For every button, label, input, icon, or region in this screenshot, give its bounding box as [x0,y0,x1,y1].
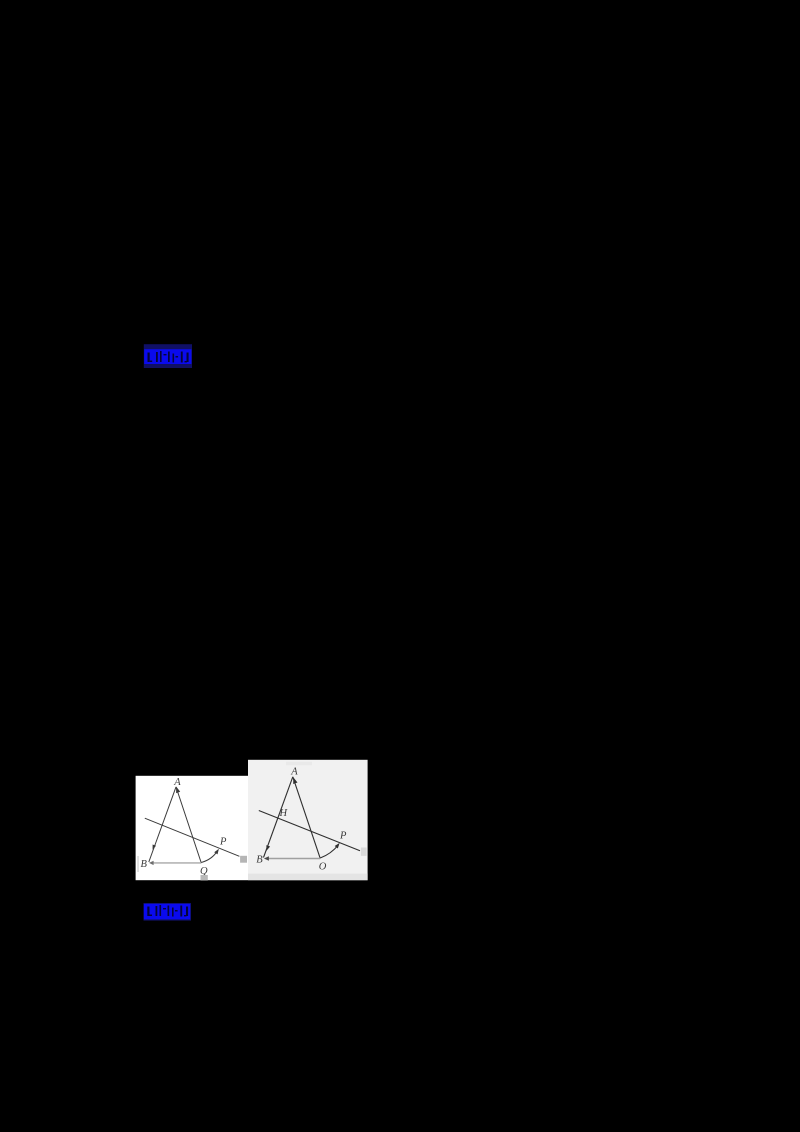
faint gray strip left of B [137,856,139,872]
arrowhead of curved arrow at P (left) [214,849,219,855]
arrowhead on BA line toward B (right) [266,845,270,851]
curved arrow Q to P [201,851,217,863]
transversal line through H and P (right) [259,811,360,851]
arrowhead at apex A (right) [293,777,297,784]
svg-text:B: B [256,855,263,866]
side line Q-A [176,787,201,863]
transversal line through P [145,818,240,856]
side line O-A (right) [293,777,320,859]
curved arrow O to P (right) [320,845,338,858]
arrowhead at apex A (left) [176,787,180,794]
gray handle square at right end of transversal [240,856,247,863]
side line B-A (right) [264,777,293,858]
base line B-O (gray, right) [266,858,321,860]
arrowhead at B on base line (right) [264,856,269,861]
right figure bottom gray band [248,874,368,881]
gray handle square at right end of transversal (right) [361,848,367,856]
gray handle square below Q [201,875,208,881]
svg-text:B: B [141,859,148,870]
svg-text:O: O [319,862,327,873]
blue highlight label 1 [144,344,192,368]
svg-text:P: P [339,830,347,841]
svg-text:H: H [279,808,289,819]
right figure light background [248,760,368,880]
side line B-A [149,787,176,862]
base line B-Q (gray) [151,862,202,864]
arrowhead of curved arrow at P (right) [335,843,340,849]
blue highlight label 2 [144,903,192,921]
right figure top gray smudge [286,762,312,765]
arrowhead on BA line toward B (left) [153,845,156,850]
left figure white background [136,776,248,880]
arrowhead at B on base line (left) [149,861,154,865]
svg-text:A: A [173,777,181,788]
svg-text:A: A [290,766,298,777]
svg-text:P: P [219,836,227,847]
